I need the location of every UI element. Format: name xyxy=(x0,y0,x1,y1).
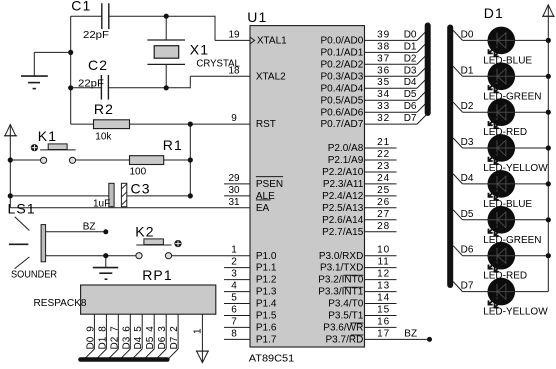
svg-text:P2.2/A10: P2.2/A10 xyxy=(322,167,364,178)
svg-text:P3.6/WR: P3.6/WR xyxy=(323,323,363,334)
svg-text:D4: D4 xyxy=(461,173,474,184)
pin name P3.4/T0 xyxy=(328,299,363,310)
label X1 xyxy=(190,42,209,58)
svg-text:P1.4: P1.4 xyxy=(256,299,277,310)
svg-text:P2.4/A12: P2.4/A12 xyxy=(322,191,364,202)
pin name P1.6 xyxy=(256,323,277,334)
label C3 xyxy=(131,181,151,197)
pin 29 xyxy=(224,173,250,184)
svg-text:4: 4 xyxy=(231,281,237,292)
wire K1 left xyxy=(10,159,40,161)
pin name P2.1/A9 xyxy=(328,155,364,166)
value LED-RED xyxy=(483,271,527,282)
RP1 pin 6 net D3 xyxy=(120,314,132,359)
value RESPACK8 xyxy=(34,298,87,309)
svg-text:D7: D7 xyxy=(461,281,474,292)
wire LED7 to rail xyxy=(514,253,551,258)
value LED-RED xyxy=(483,127,527,138)
pin 37 net D2 bus entry xyxy=(365,53,427,64)
node junction rail-ground xyxy=(68,50,73,55)
LED LED-RED (3) xyxy=(488,98,516,128)
svg-text:D5: D5 xyxy=(461,209,474,220)
svg-text:P0.7/AD7: P0.7/AD7 xyxy=(320,119,363,130)
value LED-YELLOW xyxy=(483,163,548,174)
wire R2 left lead xyxy=(71,123,94,125)
svg-text:P0.1/AD1: P0.1/AD1 xyxy=(320,48,363,59)
label C2 xyxy=(88,57,108,73)
svg-text:C2: C2 xyxy=(88,57,108,73)
svg-text:P0.3/AD3: P0.3/AD3 xyxy=(320,71,363,82)
svg-text:37: 37 xyxy=(377,53,390,64)
svg-text:35: 35 xyxy=(377,77,390,88)
wire vertical x190 xyxy=(189,124,191,196)
wire LED1 to rail xyxy=(514,38,551,43)
svg-text:P1.6: P1.6 xyxy=(256,323,277,334)
svg-text:C3: C3 xyxy=(131,181,151,197)
svg-text:D1: D1 xyxy=(461,65,474,76)
svg-text:P3.5/T1: P3.5/T1 xyxy=(328,311,363,322)
svg-text:9: 9 xyxy=(85,326,96,332)
wire C1 row from left rail to C1 xyxy=(71,15,102,17)
wire LED6 to rail xyxy=(514,217,551,222)
svg-text:8: 8 xyxy=(97,326,108,332)
svg-text:2: 2 xyxy=(169,326,180,332)
wire bus entry net D3 to LED xyxy=(453,137,488,148)
pin 28 xyxy=(365,221,397,232)
svg-text:27: 27 xyxy=(377,209,390,220)
svg-text:39: 39 xyxy=(377,29,390,40)
svg-text:P3.3/INT1: P3.3/INT1 xyxy=(318,287,363,298)
pin name P1.7 xyxy=(256,335,277,346)
pin name P2.5/A13 xyxy=(322,203,364,214)
svg-text:U1: U1 xyxy=(247,9,267,25)
pin name P3.0/RXD xyxy=(319,251,363,262)
wire bus entry net D4 to LED xyxy=(453,173,488,184)
LED LED-YELLOW (8) xyxy=(488,278,516,308)
svg-text:P2.1/A9: P2.1/A9 xyxy=(328,155,364,166)
svg-text:28: 28 xyxy=(377,221,390,232)
pin name P0.3/AD3 xyxy=(320,71,363,82)
wire LED4 to rail xyxy=(514,145,551,150)
wire C2 row right xyxy=(108,87,190,89)
svg-text:D3: D3 xyxy=(461,137,474,148)
pin name RST xyxy=(256,119,276,130)
svg-text:12: 12 xyxy=(377,269,390,280)
pin 2 xyxy=(224,257,250,268)
svg-text:LED-GREEN: LED-GREEN xyxy=(483,235,541,246)
svg-text:9: 9 xyxy=(231,113,237,124)
pin name P1.2 xyxy=(256,275,277,286)
svg-text:D2: D2 xyxy=(109,336,120,349)
svg-text:P2.6/A14: P2.6/A14 xyxy=(322,215,364,226)
svg-text:3: 3 xyxy=(231,269,237,280)
pin name P2.2/A10 xyxy=(322,167,364,178)
pin name P0.7/AD7 xyxy=(320,119,363,130)
wire up to pin18 row xyxy=(189,76,191,88)
svg-text:LED-YELLOW: LED-YELLOW xyxy=(483,163,548,174)
svg-text:10: 10 xyxy=(377,245,390,256)
pushbutton K1 xyxy=(31,144,76,164)
svg-text:X1: X1 xyxy=(190,42,209,58)
wire bus entry net D7 to LED xyxy=(453,281,488,292)
wire LED8 to rail xyxy=(514,291,548,293)
resistor pack RP1 xyxy=(81,285,216,314)
svg-text:D0: D0 xyxy=(461,29,474,40)
net label BZ (sounder) xyxy=(83,222,109,235)
svg-text:LED-YELLOW: LED-YELLOW xyxy=(483,307,548,318)
wire left rail x70 xyxy=(70,16,72,124)
svg-text:D1: D1 xyxy=(404,41,417,52)
wire sounder top to BZ xyxy=(46,231,106,233)
node junction C1-crystal top xyxy=(164,14,169,19)
svg-text:25: 25 xyxy=(377,185,390,196)
svg-text:100: 100 xyxy=(130,167,147,178)
pin 14 xyxy=(365,293,397,304)
IC U1 AT89C51 body xyxy=(250,26,365,347)
svg-text:22: 22 xyxy=(377,149,390,160)
power +5V arrow (left) xyxy=(4,125,17,161)
value CRYSTAL xyxy=(196,58,240,69)
wire EA row xyxy=(10,207,250,209)
node junction K1 row-left rail xyxy=(8,157,13,162)
pin 33 net D6 bus entry xyxy=(365,101,427,112)
RP1 pin 8 net D1 xyxy=(96,314,108,359)
pin name P3.1/TXD xyxy=(320,263,363,274)
pin name EA xyxy=(256,200,271,214)
pin 19 xyxy=(228,29,240,40)
LED LED-YELLOW (4) xyxy=(488,134,516,164)
wire sounder bottom row xyxy=(46,255,137,257)
svg-text:BZ: BZ xyxy=(404,328,417,339)
svg-text:21: 21 xyxy=(377,137,390,148)
pin name P0.6/AD6 xyxy=(320,107,363,118)
svg-text:P0.6/AD6: P0.6/AD6 xyxy=(320,107,363,118)
pin name P0.2/AD2 xyxy=(320,59,363,70)
pin name PSEN xyxy=(256,177,283,190)
pin 13 xyxy=(365,281,397,292)
label R1 xyxy=(163,137,183,153)
svg-text:33: 33 xyxy=(377,101,390,112)
svg-text:D4: D4 xyxy=(133,336,144,349)
svg-text:P0.0/AD0: P0.0/AD0 xyxy=(320,36,363,47)
RP1 pin 4 net D5 xyxy=(144,314,156,359)
svg-text:P2.7/A15: P2.7/A15 xyxy=(322,227,364,238)
label K2 xyxy=(135,224,154,240)
RP1 pin 3 net D6 xyxy=(156,314,168,359)
svg-text:P1.3: P1.3 xyxy=(256,287,277,298)
svg-text:11: 11 xyxy=(378,257,390,268)
svg-text:1: 1 xyxy=(193,328,204,334)
svg-text:P3.0/RXD: P3.0/RXD xyxy=(319,251,363,262)
svg-text:R1: R1 xyxy=(163,137,183,153)
value LED-GREEN xyxy=(483,235,541,246)
value AT89C51 xyxy=(249,353,295,364)
svg-text:D6: D6 xyxy=(404,101,417,112)
pin 9 xyxy=(231,113,237,124)
value LED-GREEN xyxy=(483,91,541,102)
LED LED-BLUE (5) xyxy=(488,170,516,200)
bus (chip side) xyxy=(425,26,431,114)
svg-text:P3.4/T0: P3.4/T0 xyxy=(328,299,363,310)
svg-text:XTAL2: XTAL2 xyxy=(256,71,286,82)
bus (LED side) xyxy=(447,28,453,286)
LED LED-GREEN (2) xyxy=(488,63,516,93)
svg-text:RST: RST xyxy=(256,119,276,130)
svg-text:P0.2/AD2: P0.2/AD2 xyxy=(320,59,363,70)
label RP1 xyxy=(142,267,173,283)
wire LED2 to rail xyxy=(514,74,551,79)
svg-text:XTAL1: XTAL1 xyxy=(257,36,287,47)
pin 17 net BZ xyxy=(365,328,433,342)
label R2 xyxy=(94,101,114,117)
pin name P2.4/A12 xyxy=(322,191,364,202)
pin 35 net D4 bus entry xyxy=(365,77,427,88)
node junction C3 row-left rail xyxy=(8,193,13,198)
svg-text:P0.4/AD4: P0.4/AD4 xyxy=(320,83,363,94)
svg-text:4: 4 xyxy=(145,326,156,332)
svg-text:SOUNDER: SOUNDER xyxy=(11,269,57,280)
pin name P1.3 xyxy=(256,287,277,298)
node junction crystal bottom xyxy=(164,85,169,90)
LED LED-GREEN (6) xyxy=(488,206,516,236)
wire bus entry net D2 to LED xyxy=(453,101,488,112)
svg-text:D1: D1 xyxy=(484,5,504,21)
svg-text:22pF: 22pF xyxy=(78,79,104,90)
svg-text:LS1: LS1 xyxy=(8,201,36,217)
svg-text:D2: D2 xyxy=(461,101,474,112)
wire bus entry net D0 to LED xyxy=(453,29,488,40)
wire C1 right to corner xyxy=(109,15,215,17)
pin name P2.3/A11 xyxy=(323,179,364,190)
label K1 xyxy=(38,128,57,144)
svg-text:D7: D7 xyxy=(169,336,180,349)
svg-text:19: 19 xyxy=(228,29,240,40)
svg-text:P2.5/A13: P2.5/A13 xyxy=(322,203,364,214)
pin name P3.3/INT1 xyxy=(318,287,363,298)
svg-text:8: 8 xyxy=(231,328,237,339)
wire corner down to pin19 row xyxy=(214,16,216,41)
RP1 pin 5 net D4 xyxy=(132,314,144,359)
svg-text:R2: R2 xyxy=(94,101,114,117)
svg-text:5: 5 xyxy=(133,326,144,332)
pin name P3.2/INT0 xyxy=(318,275,363,286)
svg-text:3: 3 xyxy=(157,326,168,332)
node junction R1 right xyxy=(188,157,193,162)
capacitor C3 xyxy=(109,183,127,206)
svg-text:EA: EA xyxy=(256,203,270,214)
svg-text:D5: D5 xyxy=(145,336,156,349)
svg-text:D1: D1 xyxy=(97,336,108,349)
svg-text:1: 1 xyxy=(231,245,237,256)
wire K2 to chip P1.0 xyxy=(172,255,251,257)
pin 26 xyxy=(365,197,397,208)
pin name P0.4/AD4 xyxy=(320,83,363,94)
label D1 xyxy=(484,5,504,21)
value SOUNDER xyxy=(11,269,57,280)
RP1 pin 1 to power arrow (down) xyxy=(193,314,209,362)
wire pin18 row to chip XTAL2 xyxy=(190,75,250,77)
svg-text:D3: D3 xyxy=(404,65,417,76)
svg-text:6: 6 xyxy=(121,326,132,332)
pin 1 xyxy=(231,245,237,256)
pin 8 xyxy=(224,328,250,339)
pin 15 xyxy=(365,305,397,316)
pin 6 xyxy=(224,305,250,316)
pin name P1.4 xyxy=(256,299,277,310)
svg-text:D6: D6 xyxy=(157,336,168,349)
svg-text:P3.2/INT0: P3.2/INT0 xyxy=(318,275,363,286)
svg-text:38: 38 xyxy=(377,41,390,52)
node junction C3 right xyxy=(188,193,193,198)
pin name P1.1 xyxy=(256,263,277,274)
svg-text:D6: D6 xyxy=(461,245,474,256)
pin 34 net D5 bus entry xyxy=(365,89,427,100)
svg-text:PSEN: PSEN xyxy=(256,179,283,190)
node junction RST-R1 column xyxy=(188,122,193,127)
svg-text:P3.7/RD: P3.7/RD xyxy=(326,335,364,346)
pin 30 xyxy=(224,185,250,196)
wire pin19 row to chip XTAL1 xyxy=(215,39,250,41)
pin name P0.1/AD1 xyxy=(320,48,363,59)
pin 31 xyxy=(228,197,240,208)
crystal X1 xyxy=(147,16,185,88)
svg-text:26: 26 xyxy=(377,197,390,208)
svg-text:D4: D4 xyxy=(404,77,417,88)
wire C3 row left xyxy=(10,195,109,197)
pin name P3.5/T1 xyxy=(328,311,363,322)
node junction sounder-ground xyxy=(103,253,108,258)
pin 24 xyxy=(365,173,397,184)
svg-text:16: 16 xyxy=(377,316,390,327)
pin 25 xyxy=(365,185,397,196)
svg-text:32: 32 xyxy=(377,113,390,124)
value LED-BLUE xyxy=(483,55,532,66)
svg-text:34: 34 xyxy=(377,89,390,100)
pin 18 xyxy=(228,65,240,76)
pin 32 net D7 bus entry xyxy=(365,113,427,124)
value 100 xyxy=(130,167,147,178)
label LS1 xyxy=(8,201,36,217)
pin name P1.0 xyxy=(256,251,277,262)
pin 23 xyxy=(365,161,397,172)
svg-text:30: 30 xyxy=(228,185,240,196)
wire R1 right lead xyxy=(164,159,191,161)
svg-text:P1.0: P1.0 xyxy=(256,251,277,262)
svg-text:P0.5/AD5: P0.5/AD5 xyxy=(320,95,363,106)
ground (sounder) xyxy=(93,256,118,280)
svg-text:P2.3/A11: P2.3/A11 xyxy=(323,179,364,190)
svg-text:P1.7: P1.7 xyxy=(256,335,277,346)
svg-text:K1: K1 xyxy=(38,128,57,144)
wire bus entry net D5 to LED xyxy=(453,209,488,220)
svg-text:24: 24 xyxy=(377,173,390,184)
resistor R2 xyxy=(94,120,130,129)
svg-text:6: 6 xyxy=(231,305,237,316)
pin 22 xyxy=(365,149,397,160)
label C1 xyxy=(71,0,91,13)
svg-text:AT89C51: AT89C51 xyxy=(249,353,295,364)
pin name P3.6/WR xyxy=(323,323,363,334)
wire bus entry net D6 to LED xyxy=(453,245,488,256)
resistor R1 xyxy=(130,156,164,165)
svg-text:RP1: RP1 xyxy=(142,267,173,283)
value 1uF xyxy=(93,198,110,209)
pin 7 xyxy=(224,316,250,327)
LED LED-RED (7) xyxy=(488,242,516,272)
wire C2 row left xyxy=(71,87,102,89)
pushbutton K2 xyxy=(136,239,182,259)
value LED-BLUE xyxy=(483,199,532,210)
svg-text:D0: D0 xyxy=(404,29,417,40)
svg-text:D3: D3 xyxy=(121,336,132,349)
svg-text:29: 29 xyxy=(228,173,240,184)
wire C3 row right xyxy=(127,195,191,197)
pin 10 xyxy=(365,245,397,256)
pin name P3.7/RD xyxy=(326,335,364,346)
pin name P0.5/AD5 xyxy=(320,95,363,106)
wire LED3 to rail xyxy=(514,110,551,115)
wire LED5 to rail xyxy=(514,181,551,186)
svg-text:15: 15 xyxy=(377,305,390,316)
svg-text:17: 17 xyxy=(377,328,390,339)
pin 12 xyxy=(365,269,397,280)
svg-text:K2: K2 xyxy=(135,224,154,240)
pin 11 xyxy=(365,257,397,268)
svg-text:14: 14 xyxy=(377,293,390,304)
pin 16 xyxy=(365,316,397,327)
value 10k xyxy=(95,131,112,142)
pin name ALE xyxy=(256,191,275,202)
pin 38 net D1 bus entry xyxy=(365,41,427,52)
svg-text:31: 31 xyxy=(228,197,240,208)
pin name P2.7/A15 xyxy=(322,227,364,238)
wire K1 to R1 xyxy=(76,159,130,161)
pin 21 xyxy=(365,137,397,148)
value 22pF (C2) xyxy=(78,79,104,90)
pin 36 net D3 bus entry xyxy=(365,65,427,76)
svg-text:36: 36 xyxy=(377,65,390,76)
svg-text:13: 13 xyxy=(377,281,390,292)
svg-text:D2: D2 xyxy=(404,53,417,64)
ground (top-left) xyxy=(21,52,71,88)
pin 27 xyxy=(365,209,397,220)
svg-text:D5: D5 xyxy=(404,89,417,100)
RP1 pin 7 net D2 xyxy=(108,314,120,359)
pin 39 net D0 bus entry xyxy=(365,29,427,40)
svg-text:P3.1/TXD: P3.1/TXD xyxy=(320,263,363,274)
capacitor C2 xyxy=(101,75,108,100)
svg-text:22pF: 22pF xyxy=(83,30,109,41)
svg-text:D0: D0 xyxy=(85,336,96,349)
wire LED power rail xyxy=(547,16,549,291)
capacitor C1 xyxy=(102,3,109,29)
pin name XTAL2 xyxy=(256,71,286,82)
svg-text:10k: 10k xyxy=(95,131,112,142)
label U1 xyxy=(247,9,267,25)
svg-text:D7: D7 xyxy=(404,113,417,124)
svg-text:C1: C1 xyxy=(71,0,91,13)
wire bus entry net D1 to LED xyxy=(453,65,488,76)
svg-text:7: 7 xyxy=(231,316,237,327)
wire left rail x10 xyxy=(9,160,11,208)
svg-text:P1.2: P1.2 xyxy=(256,275,277,286)
svg-text:2: 2 xyxy=(231,257,237,268)
svg-text:BZ: BZ xyxy=(83,222,96,233)
bus bar (RP1 common bus) xyxy=(81,357,168,362)
pin name P1.5 xyxy=(256,311,277,322)
svg-text:18: 18 xyxy=(228,65,240,76)
pin name XTAL1 xyxy=(257,36,287,47)
